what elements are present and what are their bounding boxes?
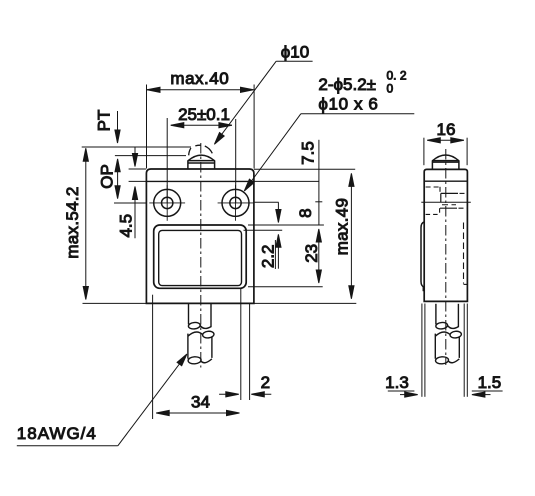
plunger free position (dashed dome) xyxy=(189,145,213,155)
leader 18AWG/4 xyxy=(17,354,187,446)
front view body outline xyxy=(146,169,254,303)
dimension 16 xyxy=(424,138,467,166)
side view right hidden edge foot xyxy=(464,283,468,285)
dimension carrier 7.5/8 xyxy=(318,140,320,225)
side view internal hidden detail upper-left dashed step xyxy=(426,187,440,193)
svg-text:1.5: 1.5 xyxy=(478,373,502,392)
dimension 25±0.1 xyxy=(167,118,236,203)
mounting hole right xyxy=(222,189,249,216)
leader phi10 xyxy=(214,61,312,144)
dimension 4.5 arrows xyxy=(132,147,137,238)
svg-text:ϕ10: ϕ10 xyxy=(281,43,309,62)
dimension 34 xyxy=(153,295,240,419)
reference line: body top ext right xyxy=(254,168,355,170)
reference line: hole centerline ext left xyxy=(114,202,146,204)
reference line: hole centerline ext right xyxy=(254,201,279,203)
cable (side): lower cylinder xyxy=(435,331,461,365)
svg-text:34: 34 xyxy=(191,393,210,412)
side view body outline xyxy=(424,169,467,301)
dimension 1.5 xyxy=(464,304,502,398)
dimension 8 arrow xyxy=(276,202,281,222)
svg-text:max.54.2: max.54.2 xyxy=(63,186,82,258)
plunger (side) xyxy=(432,155,459,169)
svg-text:PT: PT xyxy=(95,110,114,132)
side view dashed step lower-left xyxy=(426,208,440,214)
mounting hole right crosshair xyxy=(218,185,254,221)
reference line: head plate ext right xyxy=(254,180,319,182)
reference line: plunger free top (left) xyxy=(82,146,191,148)
svg-text:ϕ10 x 6: ϕ10 x 6 xyxy=(318,95,378,114)
side view centerline xyxy=(445,149,447,365)
reference line: head plate ext left xyxy=(129,180,146,182)
svg-text:OP: OP xyxy=(98,164,117,189)
mounting hole left xyxy=(154,189,181,216)
svg-text:2-ϕ5.2±: 2-ϕ5.2± xyxy=(318,75,376,94)
svg-text:max.49: max.49 xyxy=(333,198,352,256)
recessed front plate outer xyxy=(154,225,247,288)
side view internal lower dashed line xyxy=(459,207,467,209)
dimension max.49 xyxy=(349,173,354,298)
mounting hole left crosshair xyxy=(149,185,185,221)
front centerline xyxy=(200,143,202,368)
svg-text:25±0.1: 25±0.1 xyxy=(178,105,230,124)
side view internal dashed segment right of step xyxy=(460,192,467,194)
leader 2-phi5.2 xyxy=(244,114,414,191)
dimension 2 extension lines xyxy=(241,289,250,401)
cable (front): lower cylinder xyxy=(188,331,214,365)
side view internal solid step xyxy=(441,193,458,202)
svg-text:1.3: 1.3 xyxy=(385,373,409,392)
side view hole centerline (solid, overhanging) xyxy=(421,201,471,203)
svg-text:8: 8 xyxy=(296,208,315,217)
dimension 1.3 xyxy=(388,304,425,398)
svg-text:23: 23 xyxy=(302,244,321,263)
reference line: OP level xyxy=(115,155,186,157)
svg-text:4.5: 4.5 xyxy=(117,214,136,238)
side view internal lower solid line xyxy=(440,207,457,209)
plunger (front, operated position) xyxy=(188,155,215,169)
side view left mounting tab xyxy=(421,222,424,287)
dimension OP xyxy=(115,159,120,199)
side view tab step xyxy=(422,287,424,291)
dimension 2 arrows xyxy=(219,392,271,397)
dimension max.54.2 xyxy=(83,148,88,299)
svg-text:0. 2: 0. 2 xyxy=(387,69,407,83)
svg-text:0: 0 xyxy=(387,82,394,96)
reference line: bottom (max.54.2 / max.49) xyxy=(83,302,357,304)
cable (side): upper cylinder xyxy=(435,304,458,330)
reference line: body top short ext (left of body, 4.5 dim) xyxy=(129,168,146,170)
reference line: recess inner top ext right xyxy=(244,229,283,231)
reference line: recess bottom ext right xyxy=(248,286,323,288)
svg-text:7.5: 7.5 xyxy=(299,141,318,165)
side view head plate line xyxy=(424,180,467,182)
recessed front plate inner xyxy=(159,230,242,285)
tick at 7.5/8 junction xyxy=(315,201,322,203)
side view right hidden edge dashed xyxy=(463,223,465,284)
reference line: recess top ext right xyxy=(248,224,324,226)
svg-text:16: 16 xyxy=(437,120,456,139)
dimension 23 xyxy=(316,229,321,283)
svg-text:max.40: max.40 xyxy=(170,69,229,88)
cable (front): upper cylinder xyxy=(188,304,211,330)
dimension max.40 xyxy=(147,85,255,169)
side view short hidden dash below centerline xyxy=(442,204,456,206)
svg-text:18AWG/4: 18AWG/4 xyxy=(17,424,97,443)
dimension PT arrow xyxy=(115,111,120,143)
dimension 2.2 arrow xyxy=(275,234,281,269)
svg-text:2: 2 xyxy=(261,373,270,392)
svg-text:2.2: 2.2 xyxy=(258,244,277,268)
front view head plate line xyxy=(146,180,254,182)
